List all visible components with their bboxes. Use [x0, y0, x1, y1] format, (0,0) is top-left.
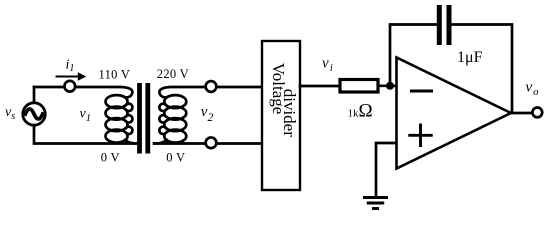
terminal node on top wire: [64, 81, 75, 92]
svg-text:vs: vs: [5, 105, 15, 122]
svg-text:0 V: 0 V: [101, 150, 120, 164]
transformer primary winding: [106, 95, 128, 108]
feedback wire: up, across, down to output: [390, 25, 512, 113]
secondary top terminal: [206, 81, 217, 92]
svg-text:vo: vo: [526, 80, 539, 99]
svg-text:v1: v1: [80, 107, 91, 125]
sine symbol inside source: [25, 109, 42, 119]
arrowhead of i1: [78, 72, 87, 81]
wire: divider output to resistor: [300, 85, 340, 88]
svg-text:i1: i1: [66, 58, 75, 75]
capacitor 1uF plates: [437, 5, 442, 45]
wire: secondary bottom to voltage divider: [154, 142, 262, 145]
wire: source left vertical + bottom wire: [34, 102, 137, 144]
svg-text:220 V: 220 V: [157, 67, 189, 81]
secondary bottom terminal: [206, 137, 217, 148]
wire: source top vertical: [33, 87, 36, 102]
plus symbol: [408, 124, 432, 148]
junction dot: [386, 82, 394, 90]
current arrow i1: [57, 76, 79, 78]
output wire: [511, 112, 531, 115]
svg-text:1μF: 1μF: [457, 49, 483, 66]
svg-text:divider: divider: [280, 89, 299, 137]
svg-text:v2: v2: [201, 104, 214, 124]
svg-text:1kΩ: 1kΩ: [348, 101, 373, 122]
svg-text:vi: vi: [322, 56, 333, 75]
output terminal vo: [532, 108, 542, 118]
transformer core bars: [137, 83, 142, 154]
svg-text:0 V: 0 V: [166, 150, 185, 164]
svg-text:110 V: 110 V: [99, 67, 131, 81]
ground symbol: [363, 196, 388, 199]
transformer secondary winding: [164, 95, 186, 108]
non-inverting input wire to ground: [376, 143, 397, 196]
op-amp triangle: [397, 58, 512, 169]
minus symbol: [410, 90, 433, 93]
ac source vs: [23, 103, 45, 125]
voltage divider box: [262, 41, 300, 190]
wire: resistor to op-amp minus input: [378, 84, 397, 87]
resistor 1k: [340, 80, 378, 93]
